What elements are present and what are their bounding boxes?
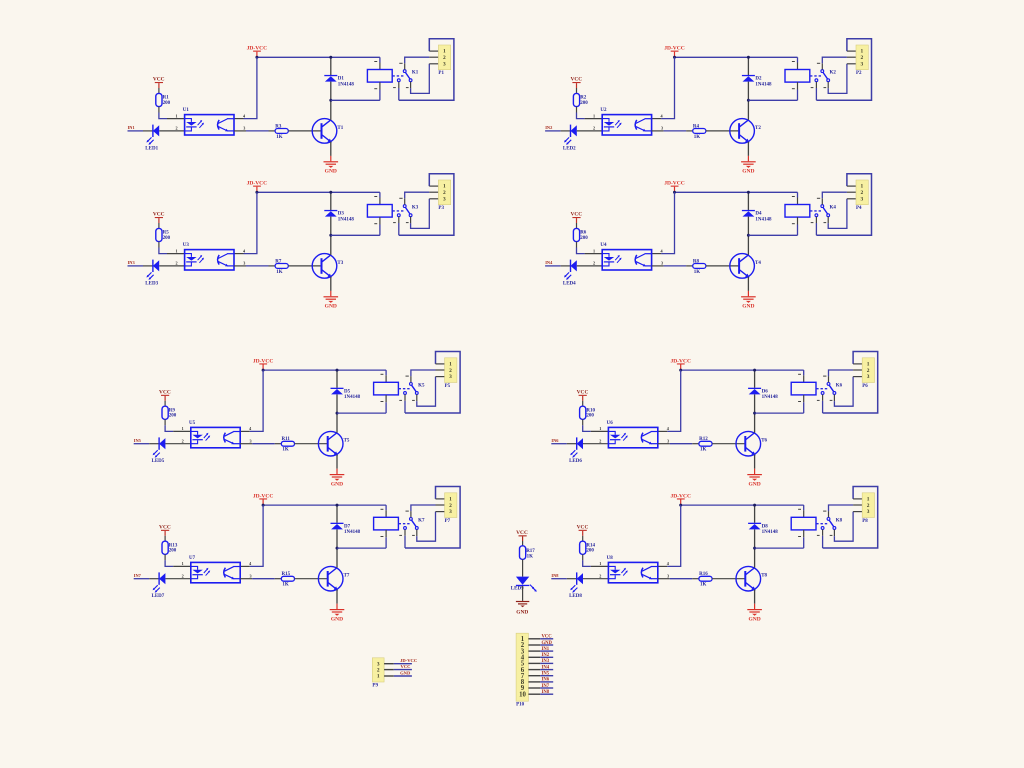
svg-text:2: 2 (593, 261, 595, 266)
svg-text:VCC: VCC (570, 212, 582, 218)
ground GND (block 2) (741, 156, 756, 175)
svg-text:D5: D5 (344, 389, 351, 394)
wire K6 contact loop to P6 pin 1 (817, 352, 878, 414)
wire JD-VCC to U7 pin 4 (240, 505, 263, 566)
svg-text:1: 1 (377, 674, 380, 680)
power port VCC (block 5) (159, 389, 171, 406)
svg-text:GND: GND (742, 304, 754, 310)
svg-text:4: 4 (661, 248, 664, 253)
relay contacts K5 (404, 383, 425, 395)
svg-text:T4: T4 (755, 261, 761, 266)
wire R11 to T5 base (295, 443, 328, 445)
svg-text:R16: R16 (699, 572, 708, 577)
svg-text:2: 2 (867, 368, 870, 374)
LED LED5 (152, 437, 166, 464)
LED LED8 (569, 572, 583, 599)
relay coil K8 (791, 517, 816, 530)
svg-text:IN4: IN4 (545, 260, 553, 265)
wire K3 contact to P3 pin 3 (406, 199, 439, 229)
power port JD-VCC (block 7) (253, 493, 273, 505)
transistor T2 (730, 119, 762, 144)
svg-text:IN5: IN5 (542, 672, 550, 677)
svg-text:T6: T6 (761, 439, 767, 444)
resistor R15 1K (281, 572, 294, 588)
svg-text:3: 3 (667, 438, 669, 443)
wire U3 pin 3 to R7 (234, 261, 275, 266)
wire K6 coil to D6 anode (755, 395, 804, 413)
ground GND (block 5) (330, 469, 345, 488)
svg-text:1: 1 (867, 496, 870, 502)
svg-text:VCC: VCC (153, 77, 165, 83)
svg-text:R15: R15 (282, 572, 291, 577)
svg-text:2: 2 (182, 438, 184, 443)
svg-text:2: 2 (443, 190, 446, 196)
wire U6 pin 3 to R12 (658, 438, 699, 443)
power port VCC (indicator) (516, 530, 528, 546)
connector P1 (438, 45, 450, 76)
dashed actuation link K7 (399, 523, 410, 525)
svg-text:R4: R4 (693, 124, 700, 129)
wire IN1 input (128, 130, 153, 132)
wire JD-VCC rail (block 3) (257, 191, 380, 193)
relay contacts K7 (404, 518, 425, 530)
wire K6 contact to P6 pin 3 (830, 377, 863, 407)
svg-text:1N4148: 1N4148 (755, 217, 772, 222)
svg-text:2: 2 (175, 261, 177, 266)
svg-text:1N4148: 1N4148 (344, 530, 361, 535)
resistor R8 1K (693, 259, 706, 275)
svg-text:IN2: IN2 (545, 125, 552, 130)
relay coil K4 (785, 205, 810, 218)
wire rail to K6 coil (798, 370, 804, 382)
wire R3 to T1 base (288, 130, 321, 132)
svg-text:1: 1 (593, 113, 595, 118)
svg-text:K2: K2 (830, 71, 837, 76)
net label IN2 (545, 125, 552, 130)
dashed actuation link K5 (399, 388, 410, 390)
wire T7 emitter (336, 590, 338, 604)
svg-text:VCC: VCC (570, 77, 582, 83)
svg-text:GND: GND (748, 481, 760, 487)
svg-text:1K: 1K (700, 583, 707, 588)
wire IN4 input (545, 265, 570, 267)
wire R1 to U1 pin 1 (159, 107, 185, 119)
svg-text:R6: R6 (580, 231, 587, 236)
LED LED3 (145, 260, 159, 287)
wire IN3 input (128, 265, 153, 267)
power port VCC (block 4) (570, 212, 582, 229)
wire K8 contact to P8 pin 3 (830, 512, 863, 542)
svg-text:R5: R5 (163, 231, 170, 236)
wire K1 contact to P1 pin 3 (406, 64, 439, 94)
svg-text:1K: 1K (700, 448, 707, 453)
junction D2 cathode node (747, 56, 750, 59)
svg-text:U6: U6 (607, 421, 614, 426)
diode D1 1N4148 (324, 57, 354, 100)
connector P8 (862, 493, 874, 524)
svg-text:1N4148: 1N4148 (338, 217, 355, 222)
wire rail to K1 coil (374, 57, 380, 69)
wire rail to K4 coil (792, 192, 798, 204)
junction D7 cathode node (336, 504, 339, 507)
diode D2 1N4148 (742, 57, 772, 100)
LED LED2 (563, 125, 577, 152)
junction D1 anode node (329, 99, 332, 102)
wire JD-VCC to U6 pin 4 (658, 370, 681, 431)
resistor R17 1K (520, 546, 536, 560)
junction D6 anode node (753, 412, 756, 415)
wire rail to K5 coil (381, 370, 387, 382)
svg-text:1K: 1K (282, 583, 289, 588)
relay coil K3 (367, 205, 392, 218)
svg-text:LED5: LED5 (152, 459, 165, 464)
wire P9 pin 3 JD-VCC (384, 658, 417, 664)
wire K5 contact to P5 pin 3 (412, 377, 445, 407)
svg-text:GND: GND (325, 169, 337, 175)
wire K3 common to P3 pin 2 (399, 192, 438, 204)
wire P10 pin 10 IN8 (528, 690, 553, 695)
junction JD-VCC node (block 7) (262, 504, 265, 507)
svg-text:1N4148: 1N4148 (762, 395, 779, 400)
optocoupler U1 (183, 108, 234, 135)
svg-text:4: 4 (249, 561, 252, 566)
net label IN8 (551, 573, 559, 578)
wire T3 emitter (330, 277, 332, 291)
svg-text:1: 1 (182, 426, 184, 431)
junction D5 cathode node (336, 369, 339, 372)
wire JD-VCC rail (block 6) (681, 369, 804, 371)
wire LED8 to U8 pin 2 (583, 573, 608, 578)
power port VCC (block 1) (153, 77, 165, 94)
relay coil K7 (374, 517, 399, 530)
svg-text:R13: R13 (169, 543, 178, 548)
svg-text:GND: GND (331, 616, 343, 622)
wire U2 pin 3 to R4 (652, 126, 693, 131)
svg-text:3: 3 (249, 438, 251, 443)
svg-text:2: 2 (443, 55, 446, 61)
svg-text:200: 200 (169, 549, 177, 554)
svg-text:P6: P6 (862, 384, 868, 389)
svg-text:VCC: VCC (153, 212, 165, 218)
svg-text:IN3: IN3 (542, 659, 550, 664)
wire P10 pin 3 IN1 (528, 647, 553, 652)
svg-text:GND: GND (325, 304, 337, 310)
transistor T3 (312, 254, 344, 279)
wire LED2 to U2 pin 2 (577, 126, 602, 131)
optocoupler U7 (189, 556, 240, 583)
resistor R3 1K (275, 124, 288, 140)
resistor R6 200 (573, 228, 588, 241)
wire IN5 input (134, 443, 159, 445)
wire R14 to U8 pin 1 (583, 554, 609, 566)
power port JD-VCC (block 4) (664, 181, 684, 193)
junction JD-VCC node (block 1) (255, 56, 258, 59)
optocoupler U5 (189, 421, 240, 448)
wire K2 contact loop to P2 pin 1 (811, 39, 872, 100)
wire P10 pin 1 VCC (528, 635, 553, 640)
svg-text:3: 3 (661, 261, 663, 266)
wire R5 to U3 pin 1 (159, 242, 185, 254)
svg-text:2: 2 (377, 667, 380, 673)
svg-text:1: 1 (449, 361, 452, 367)
junction D3 cathode node (329, 191, 332, 194)
svg-text:1K: 1K (694, 135, 701, 140)
svg-text:IN7: IN7 (134, 573, 142, 578)
svg-text:2: 2 (599, 573, 601, 578)
wire P9 pin 1 GND (384, 670, 412, 676)
wire R16 to T8 base (712, 578, 745, 580)
transistor T8 (736, 566, 768, 591)
wire P10 pin 9 IN7 (528, 684, 553, 689)
svg-text:U8: U8 (607, 556, 614, 561)
svg-text:LED1: LED1 (145, 146, 158, 151)
svg-text:3: 3 (667, 573, 669, 578)
wire LED4 to U4 pin 2 (577, 261, 602, 266)
ground GND (block 7) (330, 604, 345, 623)
svg-text:1: 1 (449, 496, 452, 502)
wire K5 contact loop to P5 pin 1 (399, 352, 460, 414)
wire K2 coil to D2 anode (748, 82, 797, 100)
svg-text:D1: D1 (338, 77, 345, 82)
svg-text:3: 3 (249, 573, 251, 578)
svg-text:R17: R17 (526, 549, 535, 554)
relay contacts K6 (821, 383, 842, 395)
wire U4 pin 3 to R8 (652, 261, 693, 266)
svg-text:2: 2 (175, 126, 177, 131)
svg-text:IN4: IN4 (542, 665, 550, 670)
svg-text:IN8: IN8 (542, 690, 550, 695)
svg-text:200: 200 (580, 236, 588, 241)
wire LED9 to GND (522, 586, 524, 601)
svg-text:U5: U5 (189, 421, 196, 426)
svg-text:GND: GND (742, 169, 754, 175)
svg-text:D3: D3 (338, 212, 345, 217)
wire K3 coil to D3 anode (331, 217, 380, 235)
svg-text:IN7: IN7 (542, 684, 550, 689)
svg-text:10: 10 (519, 691, 526, 698)
relay contacts K3 (397, 205, 418, 217)
svg-text:1K: 1K (276, 135, 283, 140)
wire R8 to T4 base (706, 265, 739, 267)
diode D8 1N4148 (748, 505, 778, 548)
net label IN6 (551, 438, 559, 443)
optocoupler U3 (183, 243, 234, 270)
svg-text:1: 1 (599, 426, 601, 431)
transistor T6 (736, 431, 768, 456)
svg-text:K8: K8 (836, 518, 843, 523)
svg-text:T1: T1 (337, 126, 343, 131)
svg-text:IN5: IN5 (134, 438, 142, 443)
svg-text:1: 1 (175, 113, 177, 118)
junction D7 anode node (336, 547, 339, 550)
ground GND (block 8) (747, 604, 762, 623)
wire T2 collector (747, 100, 749, 120)
dashed actuation link K2 (810, 75, 821, 77)
svg-text:VCC: VCC (159, 524, 171, 530)
optocoupler U4 (600, 243, 651, 270)
svg-text:2: 2 (593, 126, 595, 131)
wire T7 collector (336, 548, 338, 568)
resistor R4 1K (693, 124, 706, 140)
dashed actuation link K1 (392, 75, 403, 77)
junction JD-VCC node (block 6) (679, 369, 682, 372)
wire K8 common to P8 pin 2 (823, 505, 862, 517)
wire P9 pin 2 VCC (384, 664, 412, 670)
svg-text:P8: P8 (862, 519, 868, 524)
junction JD-VCC node (block 8) (679, 504, 682, 507)
connector P7 (445, 493, 457, 524)
wire LED1 to U1 pin 2 (159, 126, 184, 131)
svg-text:3: 3 (443, 196, 446, 202)
wire R7 to T3 base (288, 265, 321, 267)
svg-text:T2: T2 (755, 126, 761, 131)
net label IN5 (134, 438, 142, 443)
relay coil K2 (785, 70, 810, 83)
svg-text:R14: R14 (586, 543, 595, 548)
svg-text:P4: P4 (856, 206, 862, 211)
svg-text:LED4: LED4 (563, 281, 576, 286)
svg-text:R7: R7 (275, 259, 282, 264)
svg-text:2: 2 (867, 503, 870, 509)
transistor T4 (730, 254, 762, 279)
svg-text:3: 3 (867, 374, 870, 380)
power port JD-VCC (block 3) (247, 181, 267, 193)
svg-text:U1: U1 (183, 108, 190, 113)
relay coil K6 (791, 382, 816, 395)
svg-text:3: 3 (243, 261, 245, 266)
svg-text:R11: R11 (282, 437, 291, 442)
svg-text:T5: T5 (344, 439, 350, 444)
svg-text:3: 3 (449, 509, 452, 515)
svg-text:1: 1 (861, 184, 864, 190)
svg-text:P5: P5 (445, 384, 451, 389)
wire K6 common to P6 pin 2 (823, 370, 862, 382)
svg-text:P9: P9 (372, 683, 378, 688)
svg-text:1: 1 (599, 561, 601, 566)
svg-text:2: 2 (182, 573, 184, 578)
svg-text:VCC: VCC (577, 389, 589, 395)
wire K7 contact to P7 pin 3 (412, 512, 445, 542)
wire T1 collector (330, 100, 332, 120)
wire JD-VCC to U1 pin 4 (234, 57, 257, 118)
wire LED7 to U7 pin 2 (165, 573, 190, 578)
wire LED6 to U6 pin 2 (583, 438, 608, 443)
junction D1 cathode node (329, 56, 332, 59)
junction D4 cathode node (747, 191, 750, 194)
svg-text:1: 1 (443, 184, 446, 190)
wire T1 emitter (330, 142, 332, 156)
wire rail to K2 coil (792, 57, 798, 69)
resistor R13 200 (162, 541, 178, 554)
svg-text:K1: K1 (412, 71, 419, 76)
wire T6 emitter (754, 455, 756, 469)
junction JD-VCC node (block 4) (673, 191, 676, 194)
svg-text:P1: P1 (438, 71, 444, 76)
svg-text:2: 2 (861, 55, 864, 61)
wire JD-VCC to U4 pin 4 (652, 192, 675, 253)
svg-text:R9: R9 (169, 408, 176, 413)
svg-text:IN8: IN8 (551, 573, 559, 578)
wire IN2 input (545, 130, 570, 132)
connector P9 (372, 658, 384, 689)
wire JD-VCC to U8 pin 4 (658, 505, 681, 566)
wire JD-VCC rail (block 8) (681, 504, 804, 506)
LED LED6 (569, 437, 583, 464)
LED LED1 (145, 125, 159, 152)
optocoupler U6 (607, 421, 658, 448)
resistor R7 1K (275, 259, 288, 275)
resistor R2 200 (573, 93, 588, 106)
wire T5 collector (336, 413, 338, 433)
svg-text:200: 200 (586, 549, 594, 554)
wire K7 contact loop to P7 pin 1 (399, 487, 460, 549)
junction D3 anode node (329, 234, 332, 237)
svg-text:4: 4 (243, 113, 246, 118)
svg-text:200: 200 (580, 101, 588, 106)
svg-text:T3: T3 (337, 261, 343, 266)
junction D4 anode node (747, 234, 750, 237)
svg-text:2: 2 (861, 190, 864, 196)
svg-text:GND: GND (542, 641, 553, 646)
wire U1 pin 3 to R3 (234, 126, 275, 131)
power port VCC (block 3) (153, 212, 165, 229)
wire LED5 to U5 pin 2 (165, 438, 190, 443)
svg-text:4: 4 (661, 113, 664, 118)
wire JD-VCC to U3 pin 4 (234, 192, 257, 253)
svg-text:200: 200 (163, 236, 171, 241)
svg-text:4: 4 (243, 248, 246, 253)
connector P5 (445, 358, 457, 389)
diode D3 1N4148 (324, 192, 354, 235)
svg-text:IN6: IN6 (542, 678, 550, 683)
svg-text:GND: GND (331, 481, 343, 487)
wire K2 common to P2 pin 2 (817, 57, 856, 69)
wire P10 pin 2 GND (528, 641, 553, 646)
svg-text:1N4148: 1N4148 (338, 82, 355, 87)
wire T8 collector (754, 548, 756, 568)
svg-text:LED2: LED2 (563, 146, 576, 151)
wire T6 collector (754, 413, 756, 433)
svg-text:GND: GND (400, 670, 411, 675)
svg-text:K6: K6 (836, 383, 843, 388)
svg-text:1: 1 (861, 49, 864, 55)
wire U7 pin 3 to R15 (240, 573, 281, 578)
wire R9 to U5 pin 1 (165, 419, 191, 431)
wire K7 common to P7 pin 2 (406, 505, 445, 517)
ground GND (indicator) (516, 601, 529, 616)
wire T3 collector (330, 235, 332, 255)
svg-text:2: 2 (449, 503, 452, 509)
svg-text:1N4148: 1N4148 (762, 530, 779, 535)
svg-text:VCC: VCC (159, 389, 171, 395)
wire R13 to U7 pin 1 (165, 554, 191, 566)
svg-text:K5: K5 (418, 383, 425, 388)
svg-text:2: 2 (449, 368, 452, 374)
junction JD-VCC node (block 3) (255, 191, 258, 194)
LED LED9 (511, 577, 537, 592)
svg-text:P7: P7 (445, 519, 451, 524)
diode D5 1N4148 (331, 370, 361, 413)
wire LED3 to U3 pin 2 (159, 261, 184, 266)
power port VCC (block 7) (159, 524, 171, 541)
svg-text:1: 1 (175, 248, 177, 253)
svg-text:1N4148: 1N4148 (344, 395, 361, 400)
svg-text:JD-VCC: JD-VCC (400, 658, 417, 663)
wire IN6 input (551, 443, 576, 445)
svg-text:1: 1 (182, 561, 184, 566)
transistor T1 (312, 119, 344, 144)
svg-text:IN1: IN1 (128, 125, 135, 130)
